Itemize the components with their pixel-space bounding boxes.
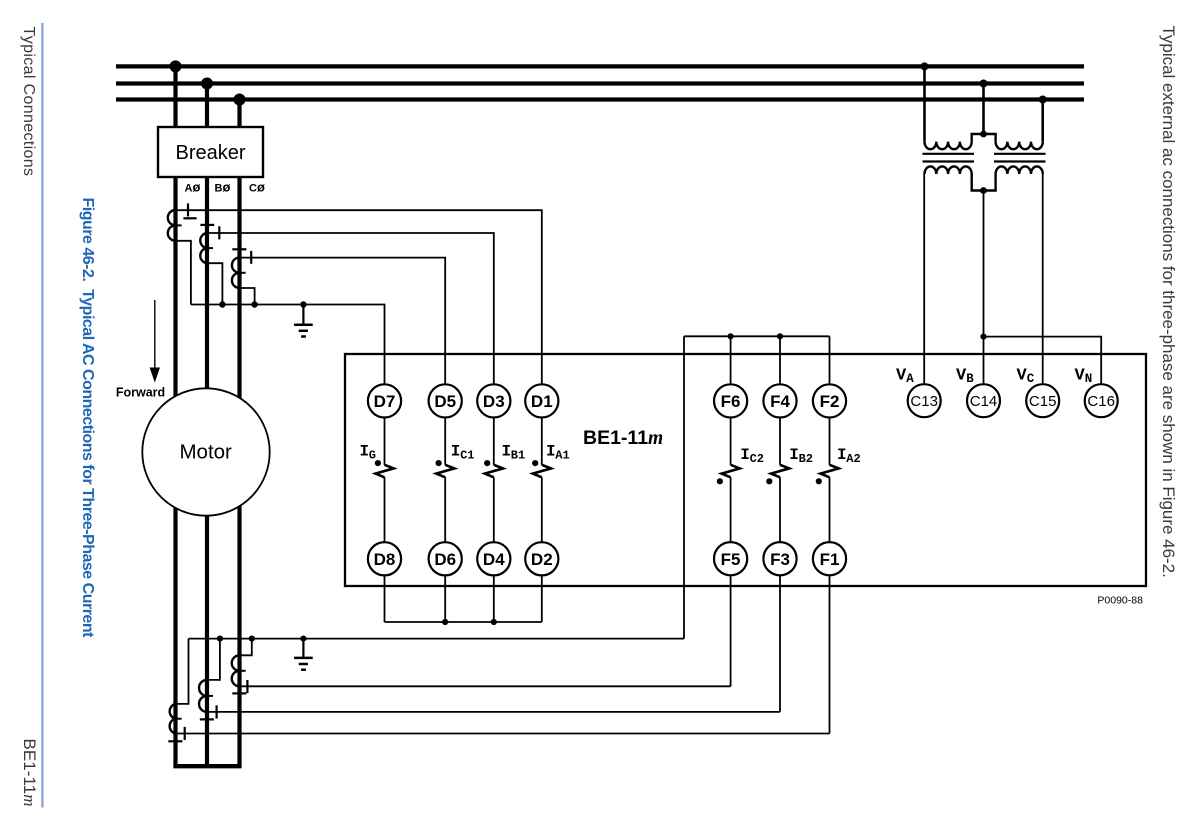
svg-text:D5: D5 [434, 392, 456, 411]
polarity dot IB1 [484, 460, 490, 466]
current input IG zigzag [376, 465, 394, 478]
junction CT C1 return [251, 301, 257, 307]
terminal D2 [525, 542, 558, 575]
svg-text:Cø: Cø [249, 179, 265, 194]
svg-text:C13: C13 [910, 393, 938, 410]
CT B1 mid tick [207, 247, 214, 249]
svg-text:B1: B1 [511, 448, 525, 462]
wire F5 drop to CT C2 [730, 575, 732, 686]
svg-text:F4: F4 [770, 392, 790, 411]
svg-text:F6: F6 [721, 392, 741, 411]
svg-text:A1: A1 [555, 448, 569, 462]
wire F2 to input [829, 418, 831, 465]
CT B2 mid tick [207, 695, 214, 697]
terminal D7 [368, 384, 401, 417]
svg-text:P0090-88: P0090-88 [1097, 595, 1143, 607]
svg-text:D6: D6 [434, 550, 456, 569]
VT T2 primary winding [996, 142, 1043, 150]
terminal D4 [477, 542, 510, 575]
svg-text:I: I [837, 446, 847, 464]
CT C2 primary polarity bar [232, 692, 246, 694]
svg-text:B: B [966, 372, 974, 386]
wire CT B1 polarity lead to D3 [207, 233, 494, 384]
CT B1 primary polarity bar [200, 224, 214, 226]
wire IC1 to D6 [444, 477, 446, 542]
wire D3 to input [493, 418, 495, 465]
CT A2 primary polarity bar [168, 740, 182, 742]
terminal F1 [813, 542, 846, 575]
wire VT primary drop A [923, 66, 926, 141]
svg-text:BE1-11m: BE1-11m [20, 739, 39, 807]
relay case BE1-11m [345, 354, 1146, 586]
wire CT C2 common riser [240, 639, 252, 656]
wire CT A2 common riser [176, 639, 189, 704]
svg-text:Typical external ac connection: Typical external ac connections for thre… [1159, 26, 1178, 578]
ground (upper CT return) [294, 305, 313, 337]
svg-text:I: I [502, 442, 512, 460]
junction D4 tie [491, 619, 497, 625]
current input IB2 zigzag [771, 465, 789, 478]
junction CT B2 common [217, 636, 223, 642]
wire VN branch to C16 [984, 337, 1102, 385]
wire F6 to input [730, 418, 732, 465]
wire D7 to input [384, 418, 386, 465]
svg-text:D1: D1 [531, 392, 553, 411]
svg-text:BE1-11m: BE1-11m [583, 427, 663, 449]
terminal D8 [368, 542, 401, 575]
margin rule (blue vertical line) [41, 23, 44, 808]
svg-text:I: I [740, 446, 750, 464]
svg-text:I: I [360, 442, 370, 460]
wire IB1 to D4 [493, 477, 495, 542]
junction VT drop C on bus [1039, 96, 1047, 104]
CT A1 mid tick [175, 224, 182, 226]
polarity dot IA2 [816, 478, 822, 484]
motor [142, 388, 269, 515]
svg-text:B2: B2 [799, 452, 813, 466]
svg-text:Forward: Forward [116, 386, 165, 400]
terminal D6 [429, 542, 462, 575]
svg-text:D7: D7 [374, 392, 396, 411]
motor winding shorting bar (bottom) [173, 764, 241, 768]
CT B2 (phase B lower) [199, 680, 207, 712]
terminal D1 [525, 384, 558, 417]
wire IA1 to D2 [541, 477, 543, 542]
svg-text:A: A [906, 372, 914, 386]
CT A1 polarity bar [183, 217, 196, 219]
wire CT A1 return lead [176, 241, 191, 305]
wire D1 to input [541, 418, 543, 465]
svg-text:F3: F3 [770, 550, 790, 569]
junction F4 tie [777, 333, 783, 339]
phase C feeder [237, 100, 241, 767]
wire CT B2 common riser [207, 639, 220, 680]
svg-text:Aø: Aø [185, 179, 201, 194]
svg-text:Typical Connections: Typical Connections [20, 27, 37, 177]
terminal D3 [477, 384, 510, 417]
terminal C14 [967, 384, 1000, 417]
junction CT B1 return [219, 301, 225, 307]
junction bus C / feeder C [234, 94, 246, 106]
CT C1 mid tick [239, 272, 246, 274]
phase B feeder [205, 84, 209, 767]
svg-text:Breaker: Breaker [175, 142, 245, 164]
junction VT secondary center [980, 187, 987, 194]
current input IA1 zigzag [533, 465, 551, 478]
wire CT A2 to F1 [176, 733, 830, 735]
CT A2 polarity tick [184, 727, 186, 740]
CT C2 mid tick [239, 670, 246, 672]
CT C2 polarity tick [246, 680, 248, 693]
terminal F4 [763, 384, 796, 417]
wire VT primary drop C [1041, 100, 1044, 142]
svg-text:Motor: Motor [179, 441, 232, 464]
wire CT C1 return lead [240, 288, 255, 305]
wire F-polarity tie bus [684, 335, 830, 337]
wire F2 riser [829, 336, 831, 384]
wire D6 drop [444, 575, 446, 622]
wire CT B1 return lead [207, 263, 222, 304]
svg-text:D3: D3 [483, 392, 505, 411]
svg-text:C15: C15 [1029, 393, 1057, 410]
VT T2 secondary winding [996, 166, 1043, 174]
polarity dot IB2 [766, 478, 772, 484]
wire VC to C15 [1042, 174, 1044, 384]
junction VT primary center [980, 131, 987, 138]
svg-text:F2: F2 [820, 392, 840, 411]
bus phase A (top horizontal) [116, 64, 1084, 68]
junction VT drop A on bus [921, 62, 929, 70]
VT secondary center bridge [972, 174, 996, 191]
svg-text:F1: F1 [820, 550, 840, 569]
breaker [158, 127, 263, 177]
svg-text:D2: D2 [531, 550, 553, 569]
bus phase C [116, 97, 1084, 101]
svg-text:Bø: Bø [215, 179, 231, 194]
svg-text:C: C [1027, 372, 1035, 386]
wire IC2 to F5 [730, 477, 732, 542]
current input IC2 zigzag [722, 465, 740, 478]
CT A2 mid tick [175, 718, 182, 720]
wire F4 riser [779, 336, 781, 384]
svg-text:C2: C2 [750, 452, 764, 466]
wire CT A1 polarity lead to D1 [176, 210, 542, 384]
CT B2 polarity tick [216, 705, 218, 718]
junction D6 tie [442, 619, 448, 625]
svg-text:D8: D8 [374, 550, 396, 569]
svg-text:G: G [369, 448, 376, 462]
wire CT return bus to D7 [191, 305, 385, 385]
wire VB neutral to C14 [983, 191, 985, 385]
svg-text:C16: C16 [1087, 393, 1115, 410]
wire VT primary drop B [982, 84, 985, 135]
terminal C15 [1026, 384, 1059, 417]
CT A1 polarity tick [187, 203, 189, 216]
svg-text:Figure 46-2. Typical AC Conne: Figure 46-2. Typical AC Connections for … [79, 198, 96, 639]
wire D8 drop [384, 575, 386, 622]
junction VT drop B on bus [980, 80, 988, 88]
VT T1 core [923, 154, 975, 162]
wire IG to D8 [384, 477, 386, 542]
junction bus B / feeder B [201, 78, 213, 90]
CT C1 (phase C upper) [232, 258, 240, 288]
terminal F6 [714, 384, 747, 417]
svg-text:C14: C14 [970, 393, 998, 410]
svg-text:A2: A2 [846, 452, 860, 466]
CT C1 polarity tick [250, 251, 252, 264]
CT B2 primary polarity bar [200, 718, 214, 720]
terminal C16 [1085, 384, 1118, 417]
polarity dot IA1 [532, 460, 538, 466]
svg-text:D4: D4 [483, 550, 505, 569]
wire D4 drop [493, 575, 495, 622]
wire D2 drop [541, 575, 543, 622]
junction ground tap [300, 301, 306, 307]
CT C1 primary polarity bar [232, 248, 246, 250]
wire D-return tie bus [385, 621, 542, 623]
svg-text:I: I [789, 446, 799, 464]
current input IB1 zigzag [485, 465, 503, 478]
wire VA to C13 [923, 174, 925, 384]
wire CT B2 to F3 [207, 711, 780, 713]
phase A feeder (thick vertical) [173, 66, 177, 766]
CT C2 (phase C lower) [232, 655, 240, 686]
ground (lower CT common) [294, 639, 313, 670]
junction CT C2 common [249, 636, 255, 642]
polarity dot IC2 [717, 478, 723, 484]
terminal D5 [429, 384, 462, 417]
polarity dot IC1 [436, 460, 442, 466]
svg-text:I: I [451, 442, 461, 460]
CT A1 (phase A upper) [168, 210, 176, 241]
VT primary center bridge [972, 134, 996, 142]
junction VN branch [980, 334, 986, 340]
VT T1 secondary winding [925, 166, 972, 174]
wire D5 to input [444, 418, 446, 465]
svg-text:N: N [1085, 372, 1093, 386]
CT B1 (phase B upper) [200, 233, 207, 263]
terminal F2 [813, 384, 846, 417]
current input IA2 zigzag [821, 465, 839, 478]
wire IB2 to F3 [779, 477, 781, 542]
terminal F5 [714, 542, 747, 575]
polarity dot IG [375, 460, 381, 466]
junction lower ground tap [300, 636, 306, 642]
CT B1 polarity tick [218, 226, 220, 239]
forward arrow [150, 300, 160, 383]
wire F3 drop to CT B2 [779, 575, 781, 712]
wire F6 riser [730, 336, 732, 384]
bus phase B [116, 81, 1084, 85]
wire IA2 to F1 [829, 477, 831, 542]
terminal F3 [763, 542, 796, 575]
terminal C13 [908, 384, 941, 417]
svg-text:F5: F5 [721, 550, 741, 569]
svg-text:I: I [546, 442, 556, 460]
wire CT C1 polarity lead to D5 [240, 258, 446, 384]
wire F tie bus to lower CT common [683, 336, 685, 638]
current input IC1 zigzag [436, 465, 454, 478]
VT T1 primary winding [925, 142, 972, 150]
wire F1 drop to CT A2 [829, 575, 831, 733]
junction F6 tie [728, 333, 734, 339]
svg-text:C1: C1 [460, 448, 474, 462]
junction bus A / feeder A [170, 60, 182, 72]
VT T2 core [994, 154, 1046, 162]
wire lower CT common bus [189, 638, 685, 640]
CT A2 (phase A lower) [170, 704, 176, 734]
wire CT C2 to F5 [240, 685, 731, 687]
wire F4 to input [779, 418, 781, 465]
